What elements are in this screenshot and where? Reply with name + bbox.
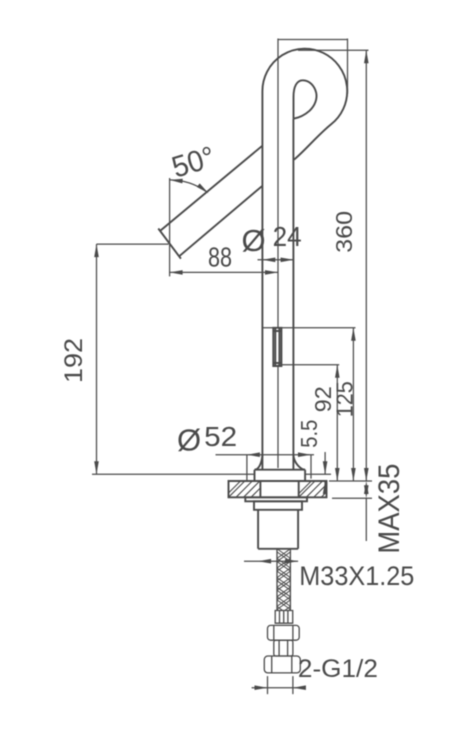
O52 extension right: [310, 455, 312, 479]
arrow O24 left: [262, 258, 275, 263]
plate hatching left: [229, 481, 327, 497]
svg-text:Ø: Ø: [177, 423, 201, 458]
base plate outline: [229, 481, 327, 497]
arrow 5.5 upper: [323, 461, 328, 474]
plate hole edges: [260, 481, 298, 497]
50 deg arc: [170, 180, 207, 192]
svg-text:M33X1.25: M33X1.25: [299, 561, 414, 591]
360 dimension line: [365, 50, 367, 481]
hex mid section: [274, 640, 293, 656]
arrow G1/2 left: [255, 685, 268, 690]
hex nut 1: [268, 625, 300, 640]
192 bottom extension line: [92, 473, 255, 475]
spout lower edge (left piece): [179, 186, 262, 256]
arrow G1/2 right: [293, 685, 306, 690]
arrow 192 bottom: [94, 461, 99, 474]
riser left edge: [261, 91, 263, 470]
inner curl teardrop: [294, 80, 317, 118]
125 extension line: [262, 327, 355, 329]
plate hatching right: [299, 481, 327, 497]
svg-text:360: 360: [331, 211, 357, 253]
arrow 360 top: [364, 50, 369, 63]
O52 extension left: [246, 455, 248, 481]
svg-text:Ø: Ø: [242, 223, 266, 258]
svg-text:5.5: 5.5: [296, 420, 322, 448]
125 dimension line: [352, 328, 354, 481]
arrow MAX35 lower: [364, 485, 369, 498]
50 deg vertical leg: [169, 178, 171, 276]
O52 dimension line: [216, 454, 315, 456]
spout upper edge: [160, 146, 262, 231]
spout end face: [158, 229, 181, 259]
bell shoulder: [255, 469, 306, 471]
arrow 88 right: [265, 270, 278, 275]
arrow O52 right: [298, 452, 311, 457]
svg-text:MAX35: MAX35: [373, 464, 406, 554]
arrow O24 right: [281, 258, 294, 263]
arrow MAX35 upper: [364, 481, 369, 494]
arrow 125 top: [351, 328, 356, 341]
arrow 360 bottom: [364, 468, 369, 481]
arrowheads: [94, 50, 368, 690]
5.5 dimension line lower stub: [324, 481, 326, 490]
svg-text:88: 88: [208, 242, 232, 273]
bottom dimension line: [252, 687, 306, 689]
arrow M33 right: [285, 559, 298, 564]
92 extension line: [282, 364, 339, 366]
arrow 88 left: [170, 270, 183, 275]
88 dimension line: [170, 271, 278, 273]
192 dimension line: [96, 244, 98, 474]
arrow 5.5 lower: [323, 481, 328, 494]
arrow 50deg arc end: [197, 183, 209, 193]
bell flare left: [255, 455, 263, 470]
svg-text:125: 125: [332, 381, 358, 417]
arrow O52 left: [247, 452, 260, 457]
92 dimension line: [336, 365, 338, 481]
arrow 50deg arc start: [170, 179, 183, 184]
flange 2: [254, 501, 302, 510]
plate bottom extension line (MAX35): [332, 497, 372, 499]
top connector horizontal: [278, 39, 348, 41]
arrow 192 top: [94, 244, 99, 257]
threaded shank: [258, 510, 298, 549]
braid crosshatch pattern: [277, 549, 290, 629]
O24 dimension line: [258, 259, 295, 261]
bell flare right: [293, 455, 305, 470]
arrow 125 bottom: [351, 468, 356, 481]
hose collar section: [275, 611, 293, 624]
top tangent extension line: [298, 49, 369, 51]
riser right edge: [292, 119, 294, 470]
flange 1 under plate: [245, 497, 307, 501]
M33 dimension line: [244, 560, 298, 562]
handle pin outer: [273, 328, 281, 366]
MAX35 leader continuation: [365, 498, 367, 541]
hex nut 2: [264, 656, 300, 673]
50 deg horizontal line to tip: [97, 243, 169, 245]
bottom dim extension lines: [268, 676, 293, 694]
5.5 dimension line upper: [324, 452, 326, 474]
svg-text:2-G1/2: 2-G1/2: [298, 655, 378, 683]
arrow 92 bottom: [335, 468, 340, 481]
plate top extension line: [329, 480, 372, 482]
svg-text:24: 24: [273, 221, 302, 252]
outer curl arc and spout lower edge (right piece): [262, 49, 347, 160]
bell cylinder sides: [255, 470, 306, 481]
top connector extension line vertical left: [277, 39, 279, 469]
handle pin inner lines: [273, 328, 281, 366]
svg-text:52: 52: [204, 421, 237, 452]
braided hose borders: [277, 549, 290, 611]
5.5 extension right of bell: [305, 473, 331, 475]
svg-text:192: 192: [60, 338, 88, 383]
top connector extension line vertical right: [347, 39, 349, 95]
arrow M33 left: [258, 559, 271, 564]
arrow 92 top: [335, 365, 340, 378]
svg-text:50°: 50°: [168, 141, 219, 185]
